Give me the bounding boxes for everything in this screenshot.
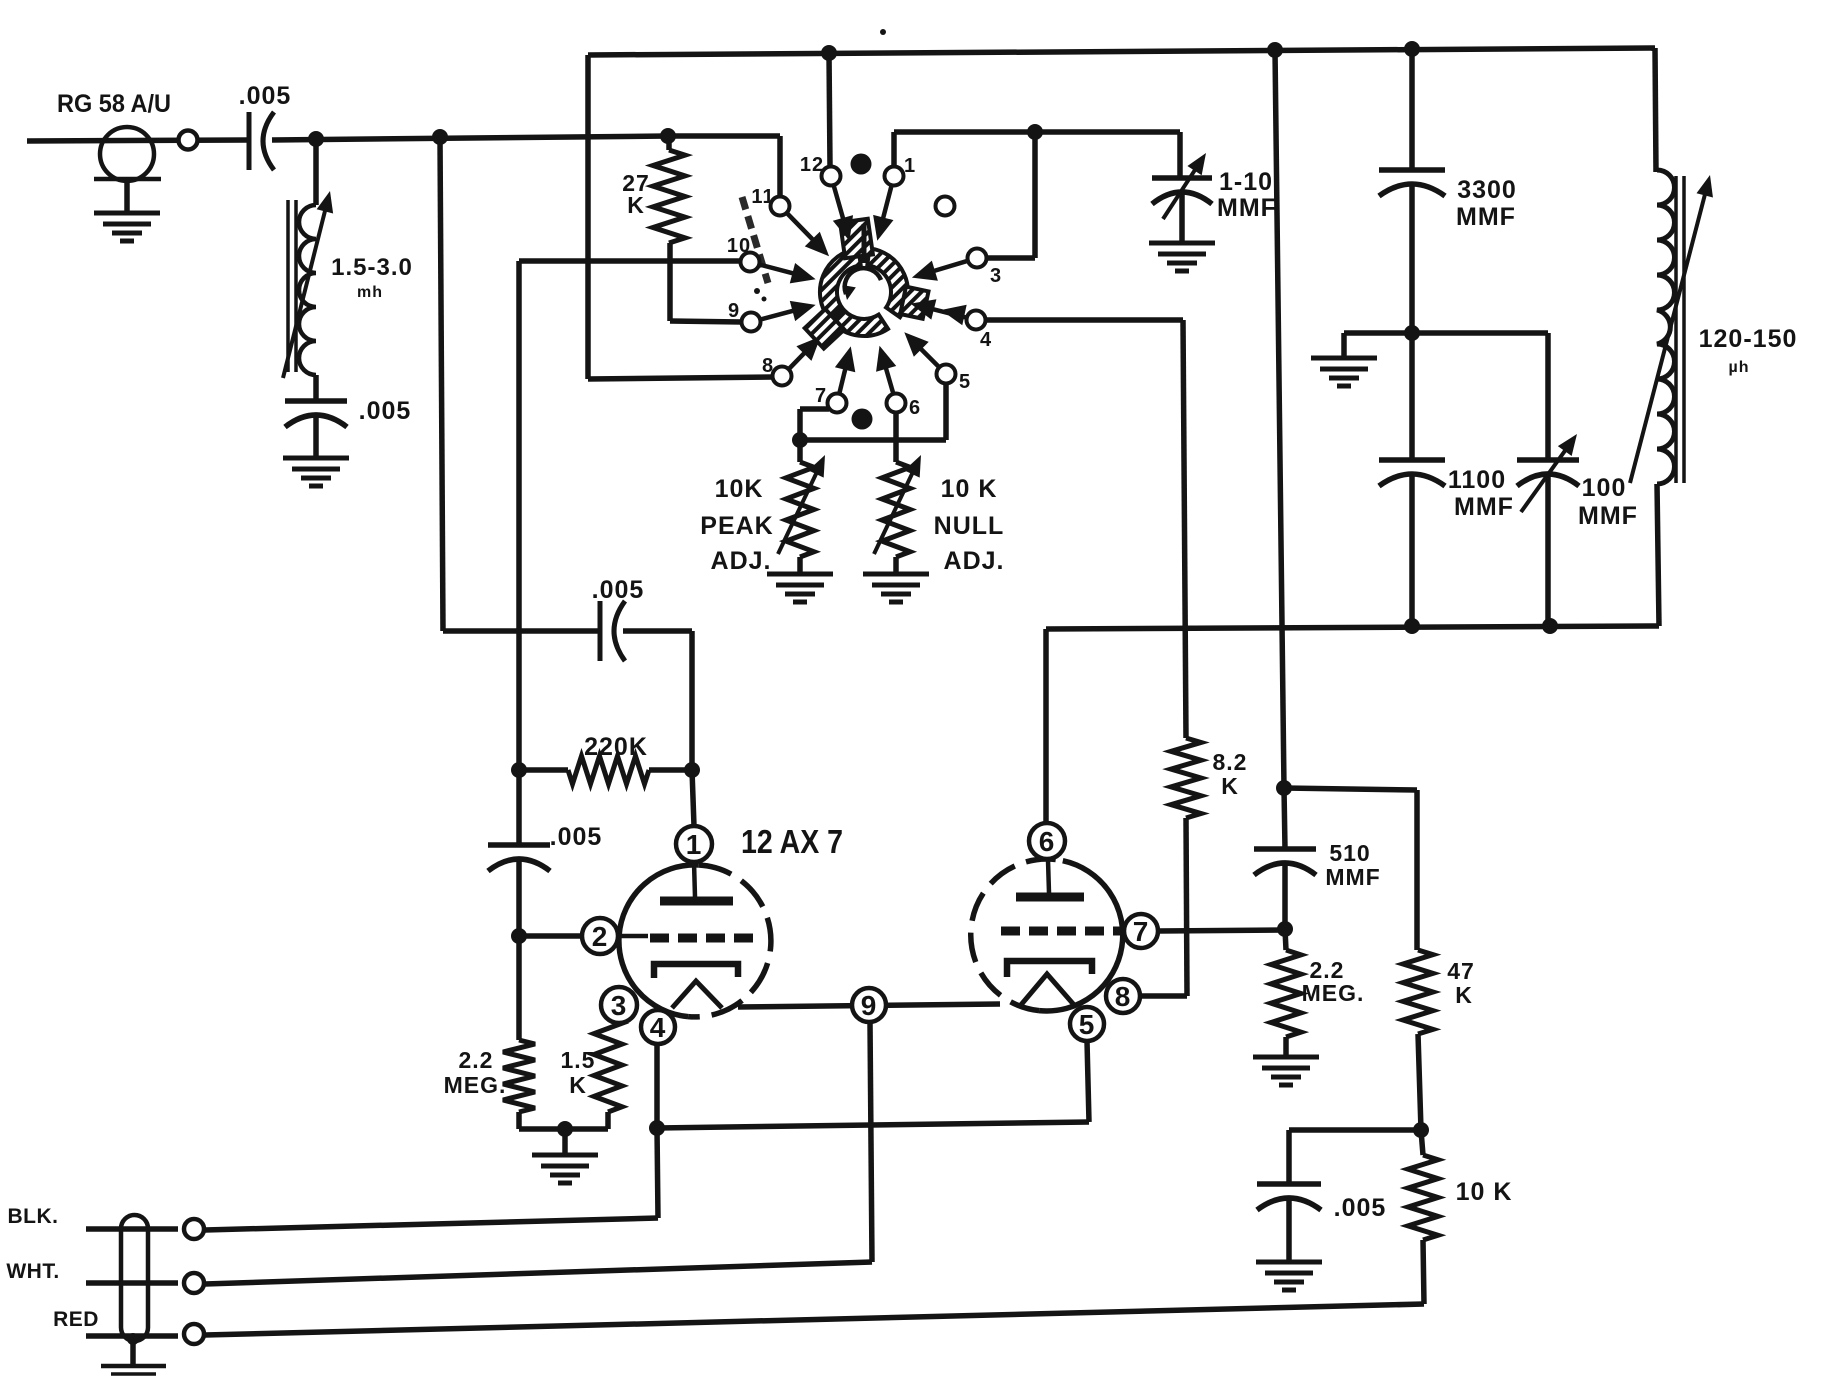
svg-text:3: 3 — [990, 265, 1002, 287]
label switch pin 5 — [959, 371, 971, 393]
label R4 — [934, 475, 1005, 575]
node N junction — [511, 928, 527, 944]
svg-text:8.2: 8.2 — [1213, 749, 1248, 775]
resistor R1 27K — [653, 136, 685, 321]
svg-text:MMF: MMF — [1456, 203, 1516, 231]
label L2 — [1699, 325, 1798, 376]
capacitor C2 .005 — [285, 401, 347, 427]
wire node S to pin5 V2 — [657, 1041, 1089, 1128]
svg-text:11: 11 — [751, 186, 774, 208]
wire C4 stems — [516, 770, 522, 936]
svg-text:6: 6 — [909, 397, 921, 419]
node O junction — [557, 1121, 573, 1137]
label switch pin 8 — [762, 355, 774, 377]
switch contact arrow 8 — [790, 336, 821, 368]
tube V1 pin 3 — [601, 987, 637, 1023]
terminal input — [179, 131, 198, 150]
svg-text:WHT.: WHT. — [6, 1260, 59, 1283]
switch contact arrow 6 — [876, 346, 896, 393]
switch terminal 1 — [885, 167, 904, 186]
arrow C8 variable — [1521, 434, 1577, 512]
tube V1 grid — [619, 936, 762, 938]
wire pin7 to node Q — [1158, 930, 1285, 931]
svg-text:8: 8 — [762, 355, 774, 377]
terminal WHT — [184, 1273, 204, 1293]
switch terminal 5 — [937, 365, 956, 384]
node Q junction — [1277, 921, 1293, 937]
svg-text:3300: 3300 — [1457, 176, 1517, 204]
wire C7 stem — [1409, 333, 1415, 626]
svg-text:47: 47 — [1447, 958, 1475, 984]
wire pin4 down — [654, 1044, 660, 1128]
wire node C to pin11 — [668, 136, 780, 196]
label R1 27K — [622, 170, 650, 218]
wire node S to BLK — [657, 1128, 658, 1218]
capacitor C10 .005 — [1257, 1184, 1321, 1210]
switch terminal 11 — [771, 197, 790, 216]
label C5 — [1217, 168, 1277, 222]
wire input line — [27, 140, 249, 141]
node L junction — [511, 762, 527, 778]
svg-text:.005: .005 — [359, 397, 412, 425]
wire pin10 left and down — [519, 261, 741, 770]
resistor R7 1.5K — [565, 1018, 622, 1129]
tube V2 pin 5 — [1070, 1007, 1104, 1041]
node J junction — [1404, 618, 1420, 634]
svg-text:BLK.: BLK. — [8, 1205, 59, 1228]
node F junction — [792, 432, 808, 448]
resistor R8 8.2K — [1171, 320, 1201, 996]
arrow L2 variable — [1630, 175, 1713, 483]
capacitor C8 100 MMF variable — [1517, 460, 1579, 625]
node H junction top rail — [1404, 41, 1420, 57]
svg-text:RG 58 A/U: RG 58 A/U — [57, 90, 171, 118]
wire left drop to pin8 — [588, 55, 773, 379]
label BLK — [8, 1205, 59, 1228]
wire bottom rail of tank — [1046, 626, 1659, 629]
wire pin1 net right — [894, 129, 1180, 135]
ground below R9 — [1253, 1057, 1319, 1085]
switch terminal 4 — [967, 311, 986, 330]
wire C10 to ground — [1286, 1200, 1292, 1262]
rotor rotation arrow — [843, 268, 881, 300]
svg-text:1.5: 1.5 — [561, 1047, 596, 1073]
label C9 — [1325, 840, 1380, 890]
tube pin 9 terminal — [852, 988, 886, 1022]
svg-text:MMF: MMF — [1325, 864, 1380, 890]
tube V1 envelope — [619, 865, 771, 1017]
tube V2 cathode — [1007, 961, 1092, 977]
switch contact arrow 5 — [904, 332, 938, 366]
label switch pin 9 — [728, 300, 740, 322]
resistor R5 220K — [519, 756, 692, 784]
node G junction top rail — [1267, 42, 1283, 58]
switch position dot bottom — [852, 409, 873, 430]
node D junction top rail — [821, 45, 837, 61]
switch contact arrow 7 — [835, 346, 855, 392]
switch contact arrow 10 — [761, 263, 816, 283]
svg-text:1-10: 1-10 — [1219, 168, 1273, 196]
wire pin9 down — [870, 1022, 872, 1262]
wire C3 to R2 right node — [623, 631, 692, 770]
capacitor C5 1-10 MMF — [1152, 178, 1212, 243]
ground cable shield — [101, 1366, 166, 1374]
arrow R4 wiper — [874, 455, 921, 554]
terminal RED — [184, 1324, 204, 1344]
wire pin4 switch right — [985, 317, 1183, 323]
ground below C2 — [283, 458, 349, 486]
svg-text:2: 2 — [592, 921, 609, 952]
arrow L1 variable — [283, 191, 333, 378]
svg-text:7: 7 — [815, 385, 827, 407]
wire C9 stems — [1284, 788, 1285, 929]
ground below C10 — [1256, 1262, 1322, 1290]
wire shield ground stem — [130, 1339, 136, 1366]
svg-text:K: K — [1455, 982, 1473, 1008]
wire C6 to node I — [1409, 186, 1415, 333]
terminal BLK — [184, 1219, 204, 1239]
svg-text:7: 7 — [1133, 916, 1150, 947]
svg-text:1.5-3.0: 1.5-3.0 — [331, 254, 413, 281]
wire node P to R10 — [1284, 788, 1417, 950]
tube V1 heater — [672, 981, 722, 1008]
svg-text:5: 5 — [959, 371, 971, 393]
wire to C3 — [443, 628, 600, 634]
label switch pin 6 — [909, 397, 921, 419]
label WHT — [6, 1260, 59, 1283]
wire node I to ground — [1344, 333, 1412, 358]
wire L1 to C2 — [313, 375, 319, 401]
wire tank rail to pin6 — [1043, 629, 1049, 822]
wire ground stem — [562, 1129, 568, 1155]
wire node M to pin1 tube — [692, 770, 694, 826]
label C1 .005 — [239, 82, 292, 110]
wire BLK — [86, 1218, 658, 1230]
scan smudge — [742, 197, 768, 302]
inductor L1 1.5-3.0mh — [288, 200, 316, 375]
potentiometer R4 10K NULL ADJ — [882, 462, 910, 574]
wire R8 to pin8 — [1140, 993, 1187, 999]
label C4 .005 — [550, 823, 603, 851]
label switch pin 12 — [800, 154, 824, 176]
label R6 — [444, 1047, 507, 1098]
svg-text:1: 1 — [904, 155, 916, 177]
wire C2 to ground — [313, 417, 319, 458]
node M junction — [684, 762, 700, 778]
tube V1 pin 1 — [676, 826, 712, 862]
label R7 — [561, 1047, 596, 1098]
svg-text:1: 1 — [686, 829, 703, 860]
resistor R6 2.2MEG — [503, 936, 565, 1129]
svg-text:5: 5 — [1079, 1009, 1096, 1040]
svg-text:MEG.: MEG. — [1302, 980, 1365, 1006]
svg-text:MMF: MMF — [1454, 493, 1514, 521]
capacitor C6 3300 MMF — [1379, 170, 1445, 196]
switch terminal 12 — [822, 167, 841, 186]
svg-text:4: 4 — [650, 1012, 667, 1043]
tube V2 pin 8 — [1106, 979, 1140, 1013]
label C2 .005 — [359, 397, 412, 425]
svg-text:10K: 10K — [715, 475, 764, 503]
svg-text:220K: 220K — [584, 733, 648, 761]
svg-text:PEAK: PEAK — [700, 512, 773, 540]
svg-text:510: 510 — [1329, 840, 1370, 866]
svg-text:6: 6 — [1039, 826, 1056, 857]
tube V2 pin 6 — [1029, 823, 1065, 859]
svg-text:RED: RED — [53, 1308, 99, 1331]
svg-text:10 K: 10 K — [941, 475, 998, 503]
capacitor C1 .005 — [249, 112, 274, 170]
wire node B down — [440, 137, 443, 631]
ground coax shield — [94, 213, 160, 241]
rotary switch S1 rotor — [805, 219, 929, 349]
svg-text:K: K — [627, 192, 645, 218]
wire node N to pin2 — [519, 933, 581, 939]
switch contact arrow 9 — [762, 301, 816, 321]
svg-text:1100: 1100 — [1448, 466, 1506, 494]
switch terminal 10 — [741, 253, 760, 272]
wire C1 to node B — [272, 136, 668, 140]
label switch pin 10 — [727, 235, 751, 257]
svg-text:K: K — [1221, 773, 1239, 799]
node B junction — [432, 129, 448, 145]
tube V2 plate — [1016, 860, 1084, 897]
switch terminal 9 — [742, 313, 761, 332]
ground left of C7 — [1311, 358, 1377, 386]
svg-text:12: 12 — [800, 154, 824, 176]
svg-text:MMF: MMF — [1217, 194, 1277, 222]
svg-text:9: 9 — [861, 990, 878, 1021]
label C8 — [1578, 474, 1638, 530]
resistor R11 10K — [1408, 1130, 1438, 1304]
label C10 .005 — [1334, 1194, 1387, 1222]
wire node H to C6 — [1409, 49, 1415, 170]
tube V1 pin 2 — [582, 918, 618, 954]
label RED — [53, 1308, 99, 1331]
tube V2 envelope — [971, 859, 1123, 1011]
node R junction — [1413, 1122, 1429, 1138]
wire pin12 drop — [829, 53, 830, 166]
speck — [880, 29, 886, 35]
svg-text:.005: .005 — [1334, 1194, 1387, 1222]
svg-text:.005: .005 — [239, 82, 292, 110]
wire long drop from node G — [1275, 50, 1284, 788]
tube V1 plate — [660, 862, 733, 901]
wire pin7 to node F — [800, 409, 829, 440]
inductor L2 120-150uh — [1657, 170, 1684, 484]
switch position dot top — [851, 154, 872, 175]
wire R1 to pin9 — [670, 321, 742, 322]
wire node I to C8 — [1412, 333, 1548, 460]
node E junction — [1027, 124, 1043, 140]
switch terminal 7 — [828, 394, 847, 413]
switch contact arrow 1 — [873, 187, 893, 241]
switch terminal 6 — [887, 394, 906, 413]
svg-text:.005: .005 — [592, 576, 645, 604]
resistor R10 47K — [1403, 950, 1433, 1130]
wire to C5 — [1177, 132, 1183, 178]
wire node R to C10 — [1289, 1130, 1421, 1184]
svg-text:ADJ.: ADJ. — [711, 547, 772, 575]
node I junction — [1404, 325, 1420, 341]
wire pin1 up — [891, 132, 897, 166]
tube V1 cathode — [654, 964, 738, 978]
label switch pin 4 — [980, 329, 992, 351]
svg-text:.005: .005 — [550, 823, 603, 851]
ground R3 — [767, 574, 833, 602]
wire heater link — [738, 1004, 1000, 1007]
svg-text:12 AX 7: 12 AX 7 — [741, 823, 843, 860]
label R9 — [1302, 957, 1365, 1006]
switch contact arrow 12 — [833, 187, 853, 241]
cable shield — [121, 1215, 148, 1341]
switch terminal 8 — [773, 367, 792, 386]
wire pin6 down — [893, 413, 899, 462]
svg-text:120-150: 120-150 — [1699, 325, 1798, 353]
arrow R3 wiper — [778, 455, 825, 554]
node S junction — [649, 1120, 665, 1136]
label C7 — [1448, 466, 1514, 521]
switch contact arrow 3 — [912, 261, 967, 281]
switch terminal unused — [936, 197, 955, 216]
capacitor C4 .005 — [488, 845, 550, 871]
svg-text:2.2: 2.2 — [459, 1047, 494, 1073]
switch contact arrow 4 — [911, 299, 967, 325]
svg-text:NULL: NULL — [934, 512, 1005, 540]
tube V2 heater — [1020, 974, 1075, 1006]
potentiometer R3 10K PEAK ADJ — [786, 440, 814, 574]
tube V1 pin 4 — [641, 1010, 675, 1044]
ground below R6 R7 — [532, 1155, 598, 1183]
ground R4 — [863, 574, 929, 602]
label C3 .005 — [592, 576, 645, 604]
arrow C5 variable — [1163, 153, 1206, 219]
label RG 58 A/U — [57, 90, 171, 118]
node K junction — [1542, 618, 1558, 634]
label tube 12AX7 — [741, 823, 843, 860]
label L1 value — [331, 254, 413, 301]
label switch pin 1 — [904, 155, 916, 177]
node P junction — [1276, 780, 1292, 796]
label C6 — [1456, 176, 1517, 231]
label switch pin 7 — [815, 385, 827, 407]
coax connector J1 RG58A/U — [94, 127, 161, 213]
wire node F to pin5 — [800, 384, 946, 440]
svg-text:10: 10 — [727, 235, 751, 257]
wire right drop — [1655, 48, 1656, 172]
switch terminal 3 — [968, 249, 987, 268]
wire node E to pin3 — [987, 132, 1035, 258]
tube V2 pin 7 — [1124, 914, 1158, 948]
capacitor C9 510 MMF — [1254, 849, 1316, 875]
svg-text:MMF: MMF — [1578, 502, 1638, 530]
svg-text:8: 8 — [1115, 981, 1132, 1012]
capacitor C7 1100 MMF — [1379, 460, 1445, 486]
svg-text:mh: mh — [357, 284, 383, 301]
label R5 220K — [584, 733, 648, 761]
svg-text:4: 4 — [980, 329, 992, 351]
svg-text:3: 3 — [611, 990, 628, 1021]
svg-text:MEG.: MEG. — [444, 1072, 507, 1098]
label R10 — [1447, 958, 1475, 1008]
node C junction — [660, 128, 676, 144]
svg-text:10 K: 10 K — [1456, 1178, 1513, 1206]
switch contact arrow 11 — [788, 214, 829, 256]
resistor R9 2.2MEG — [1271, 929, 1301, 1057]
label R8 — [1213, 749, 1248, 799]
svg-text:µh: µh — [1729, 359, 1750, 376]
wire WHT — [86, 1262, 872, 1284]
wire L2 bottom — [1657, 484, 1659, 626]
label switch pin 3 — [990, 265, 1002, 287]
svg-text:100: 100 — [1582, 474, 1627, 502]
cable shield ground dot — [127, 1333, 139, 1345]
wire top rail — [588, 48, 1655, 55]
label switch pin 11 — [751, 186, 774, 208]
svg-text:9: 9 — [728, 300, 740, 322]
svg-text:ADJ.: ADJ. — [944, 547, 1005, 575]
label R3 — [700, 475, 773, 575]
wire node A down — [313, 139, 319, 205]
ground C5 — [1149, 243, 1215, 271]
label R11 10K — [1456, 1178, 1513, 1206]
node A junction — [308, 131, 324, 147]
wire RED — [86, 1304, 1424, 1336]
tube V2 grid — [1001, 927, 1124, 936]
capacitor C3 .005 — [600, 601, 625, 661]
svg-text:K: K — [569, 1072, 587, 1098]
